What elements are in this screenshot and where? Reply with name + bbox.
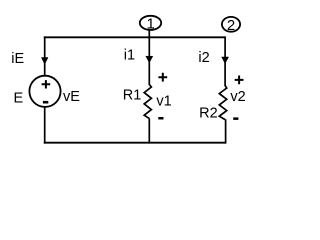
current arrow i2 (222, 57, 229, 64)
node 1 circle (140, 16, 161, 30)
plus sign v1 (158, 73, 167, 82)
plus sign inside source (42, 80, 51, 88)
svg-text:vE: vE (63, 89, 80, 105)
svg-text:1: 1 (147, 15, 155, 32)
wire R2 branch lower (225, 119, 227, 143)
svg-text:v2: v2 (230, 89, 245, 105)
svg-text:i2: i2 (198, 50, 209, 66)
wire R2 branch upper (224, 36, 226, 86)
wire E branch top (44, 36, 46, 76)
wire top bus (44, 36, 225, 38)
current arrow i1 (146, 56, 153, 63)
current arrow iE (41, 58, 48, 65)
wire R1 branch upper (148, 30, 150, 85)
svg-text:R1: R1 (123, 87, 142, 103)
minus sign inside source (43, 101, 48, 104)
plus sign v2 (235, 76, 244, 85)
svg-text:R2: R2 (199, 106, 218, 122)
minus sign v1 (158, 117, 163, 120)
svg-text:i1: i1 (124, 47, 135, 63)
resistor R1 zigzag (144, 85, 151, 119)
wire E branch bottom (44, 107, 46, 144)
wire R1 branch lower (148, 118, 150, 143)
minus sign v2 (233, 117, 238, 120)
svg-text:v1: v1 (156, 93, 171, 109)
svg-text:E: E (14, 91, 24, 107)
node 2 circle (222, 17, 240, 32)
svg-text:iE: iE (11, 51, 24, 67)
voltage source E (circle) (29, 76, 60, 107)
svg-text:2: 2 (227, 17, 235, 34)
wire bottom bus (44, 142, 226, 144)
resistor R2 zigzag (219, 86, 226, 120)
